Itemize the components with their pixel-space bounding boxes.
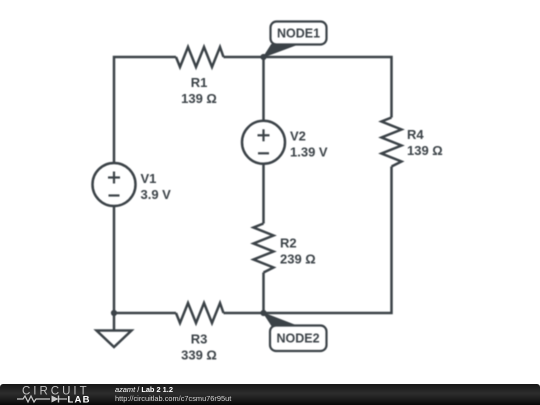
wire middle upper (NODE1 to V2 top) <box>262 57 265 121</box>
wire right rail lower and bottom-right horizontal (R4 to NODE2) <box>264 167 392 314</box>
svg-text:R3: R3 <box>191 332 208 347</box>
wire top-right horizontal and right rail upper (NODE1 to R4) <box>264 57 392 118</box>
junction dot ground <box>111 310 117 316</box>
svg-text:239 Ω: 239 Ω <box>280 252 316 267</box>
svg-text:1.39 V: 1.39 V <box>290 145 328 160</box>
CircuitLab logo <box>0 384 110 405</box>
wire middle between V2 and R2 <box>262 164 265 224</box>
svg-text:V2: V2 <box>290 129 306 144</box>
junction dot NODE1 <box>260 54 266 60</box>
svg-text:LAB: LAB <box>68 395 91 405</box>
svg-text:3.9 V: 3.9 V <box>141 187 172 202</box>
wire R3 to node NODE2 <box>224 312 264 315</box>
svg-text:R2: R2 <box>280 236 297 251</box>
resistor R2 <box>254 224 274 273</box>
wire left rail lower (V1 bottom to bottom rail) <box>113 206 116 313</box>
wire R1 to node NODE1 <box>224 56 264 59</box>
wire bottom-left (ground junction to R3) <box>114 312 176 315</box>
voltage source V2 <box>242 121 285 164</box>
node NODE2 flag <box>264 313 327 351</box>
svg-text:R4: R4 <box>407 127 424 142</box>
resistor R3 <box>176 303 224 323</box>
resistor R4 <box>382 118 402 167</box>
svg-text:139 Ω: 139 Ω <box>407 143 443 158</box>
ground <box>97 331 132 348</box>
junction dot NODE2 <box>260 310 266 316</box>
footer bar <box>0 384 540 405</box>
node NODE1 flag <box>264 22 327 58</box>
wire left rail upper and top-left horizontal (V1 top to R1) <box>114 57 176 164</box>
svg-text:339 Ω: 339 Ω <box>181 348 217 363</box>
resistor R1 <box>176 47 224 67</box>
svg-text:NODE1: NODE1 <box>277 27 320 41</box>
svg-text:R1: R1 <box>191 75 208 90</box>
wire middle lower (R2 to NODE2) <box>262 273 265 314</box>
svg-text:V1: V1 <box>141 171 157 186</box>
credit text <box>115 386 231 403</box>
svg-text:139 Ω: 139 Ω <box>181 91 217 106</box>
wire ground stem <box>113 313 116 330</box>
voltage source V1 <box>93 163 136 206</box>
svg-text:NODE2: NODE2 <box>276 332 319 346</box>
